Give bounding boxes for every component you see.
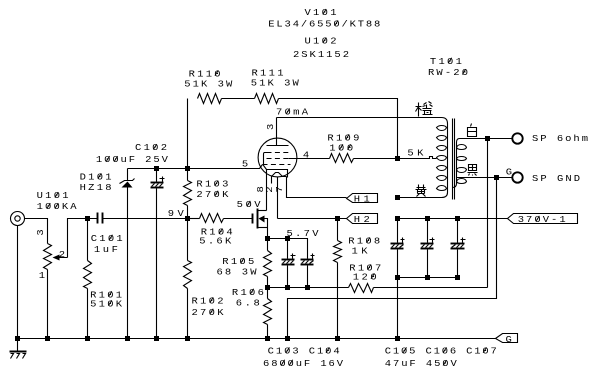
resistor R104 5.6K xyxy=(188,218,200,220)
resistor R110 51K 3W xyxy=(198,94,222,104)
wire: B+ 370V-1 line xyxy=(398,218,508,220)
svg-text:3: 3 xyxy=(266,124,276,130)
resistor R109 100 xyxy=(330,154,354,163)
wire: heater pin2 down xyxy=(277,177,279,219)
tube plate xyxy=(267,118,289,146)
wire: filter caps to ground bus xyxy=(397,278,399,339)
svg-text:EL34/6550/KT88: EL34/6550/KT88 xyxy=(268,19,380,29)
wire: SP GND return xyxy=(288,178,497,339)
svg-text:5: 5 xyxy=(242,159,248,169)
node junction dots xyxy=(154,166,159,171)
capacitor C105 47uF 450V xyxy=(397,219,399,243)
svg-text:2: 2 xyxy=(59,249,65,259)
wire: R110/R111 series link and right leg down xyxy=(222,99,398,159)
wire: plate to output transformer primary (70mA) xyxy=(277,118,448,124)
label kanji yellow (ki) xyxy=(416,185,427,197)
wire: secondary white tap to SP 6ohm xyxy=(460,138,512,140)
transformer core xyxy=(453,119,455,200)
tube g3-to-cathode strap xyxy=(264,153,267,170)
wire: secondary black tap to SP GND xyxy=(457,177,513,179)
capacitor C107 47uF 450V xyxy=(457,219,459,243)
svg-text:6800uF 16V: 6800uF 16V xyxy=(263,359,343,369)
tube heater xyxy=(272,173,287,184)
potentiometer U101 100KA xyxy=(44,244,52,270)
svg-text:68 3W: 68 3W xyxy=(217,267,257,277)
resistor R105 68 3W xyxy=(267,239,269,251)
wire: bias rail (grid1 rail) xyxy=(128,165,263,169)
wire: primary bottom to B+ line xyxy=(398,193,448,198)
resistor R106 6.8 xyxy=(267,288,269,299)
svg-text:G: G xyxy=(506,335,512,345)
capacitor C106 47uF 450V xyxy=(427,219,429,243)
wire: R107 to SP 6ohm node xyxy=(374,139,488,288)
svg-text:100KA: 100KA xyxy=(37,202,77,212)
label kanji white (shiro) xyxy=(468,124,477,137)
node G flag xyxy=(496,334,518,343)
tube cathode xyxy=(267,170,288,178)
svg-text:4: 4 xyxy=(303,150,309,160)
svg-text:RW-20: RW-20 xyxy=(428,68,468,78)
capacitor C101 1uF xyxy=(97,213,99,224)
label kanji orange (tou) xyxy=(416,102,433,118)
svg-text:1uF: 1uF xyxy=(94,245,118,255)
input jack U101 connector xyxy=(11,212,25,226)
resistor R108 1K xyxy=(334,241,342,263)
svg-text:100: 100 xyxy=(329,143,353,153)
tube grid g3 (dashed) xyxy=(267,152,289,154)
resistor R102 270K xyxy=(187,219,189,261)
pot wiper arrow xyxy=(53,255,60,261)
svg-text:120: 120 xyxy=(353,272,377,282)
wire: pot bottom to ground bus xyxy=(47,270,49,339)
svg-text:3: 3 xyxy=(36,229,46,235)
node H2 flag xyxy=(347,214,378,224)
wire: R110 left leg down to rail xyxy=(187,99,189,169)
resistor R107 120 (feedback) xyxy=(349,284,374,293)
svg-text:G: G xyxy=(506,167,512,177)
wire: pot wiper to signal node xyxy=(59,219,98,258)
svg-text:1: 1 xyxy=(39,271,45,281)
svg-text:6.8: 6.8 xyxy=(236,298,260,308)
resistor R103 270K xyxy=(187,169,189,181)
svg-text:50V: 50V xyxy=(237,200,261,210)
wire: C101 to 9V node xyxy=(103,218,188,220)
SP GND terminal xyxy=(512,172,522,182)
wire: heater pin7 to H1 xyxy=(287,177,347,198)
capacitor C102 100uF 25V xyxy=(156,169,158,182)
wire: 5.7V node line xyxy=(268,239,308,259)
wire: H2 line xyxy=(278,218,347,220)
wire: MOSFET drain up to tube cathode xyxy=(266,170,268,211)
op-amp: vacuum tube V101 EL34/6550/KT88 envelope xyxy=(258,138,297,177)
ground xyxy=(17,339,19,352)
zener diode D101 HZ18 xyxy=(127,169,129,181)
node H1 flag xyxy=(347,194,378,203)
wire: 5K tap xyxy=(398,157,437,159)
wire: H2 node to ground bus xyxy=(337,219,339,241)
transformer T101 secondary winding xyxy=(457,139,460,143)
wire: ground bus xyxy=(18,338,496,340)
capacitor C104 6800uF 16V xyxy=(301,259,314,261)
transistor U102 2SK1152 MOSFET xyxy=(252,214,254,224)
wire: g2 pin4 to R109 xyxy=(289,158,330,160)
resistor R101 510K xyxy=(87,219,89,261)
wire: input jack sleeve to ground bus xyxy=(17,226,19,339)
wire: filter caps bottom line xyxy=(398,277,458,279)
wire: jack tip to pot top xyxy=(25,219,48,244)
resistor R111 51K 3W xyxy=(255,94,279,104)
svg-text:2: 2 xyxy=(265,186,275,192)
label kanji black (kuro) xyxy=(468,165,478,176)
tube grid g2 (dashed) xyxy=(267,158,289,160)
wire: cathode return line to R107 xyxy=(268,287,349,289)
svg-text:7: 7 xyxy=(275,186,285,192)
SP 6ohm terminal xyxy=(512,133,522,143)
svg-text:C105 C106 C107: C105 C106 C107 xyxy=(385,346,497,356)
capacitor C103 6800uF 16V xyxy=(287,239,289,259)
transformer T101 RW-20 primary winding xyxy=(447,124,449,193)
wire: R109 to 5K tap column xyxy=(354,158,398,160)
node 370V-1 flag xyxy=(508,214,578,224)
tube grid g1 (dashed) xyxy=(263,164,291,166)
